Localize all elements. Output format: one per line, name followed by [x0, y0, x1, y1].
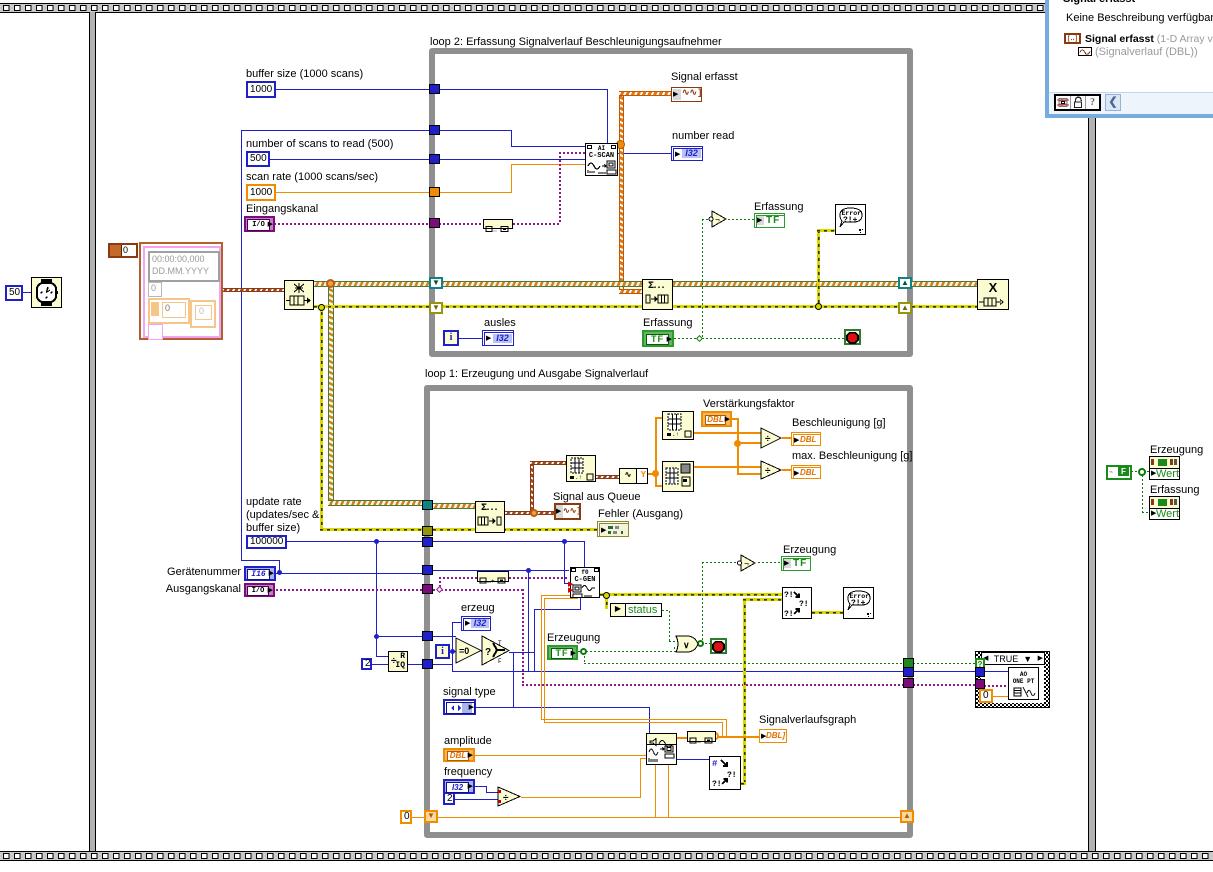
svg-text:=0: =0: [459, 646, 469, 656]
svg-text:‥: ‥: [493, 227, 497, 234]
svg-text:?!: ?!: [799, 600, 809, 609]
svg-text:?!: ?!: [727, 771, 737, 780]
svg-text:÷: ÷: [503, 793, 509, 804]
svg-text:.↑: .↑: [672, 431, 679, 438]
svg-text:#: #: [712, 759, 718, 769]
svg-text:‥+: ‥+: [487, 578, 495, 585]
svg-text:÷: ÷: [765, 466, 771, 477]
svg-text:?!: ?!: [712, 780, 722, 789]
svg-text:¬: ¬: [715, 216, 720, 225]
svg-text:T: T: [498, 640, 502, 647]
svg-text:‥: ‥: [697, 738, 701, 745]
svg-text:?!+: ?!+: [851, 599, 866, 608]
svg-text:?!: ?!: [784, 591, 794, 600]
svg-text:?: ?: [485, 647, 491, 658]
svg-text:.↑: .↑: [575, 474, 582, 481]
svg-text:?!+: ?!+: [843, 216, 858, 225]
svg-text:∨: ∨: [683, 640, 690, 650]
svg-text:F: F: [498, 658, 502, 665]
svg-text:÷: ÷: [765, 434, 771, 445]
svg-text:?!: ?!: [784, 610, 794, 618]
svg-text:¬: ¬: [744, 560, 749, 569]
